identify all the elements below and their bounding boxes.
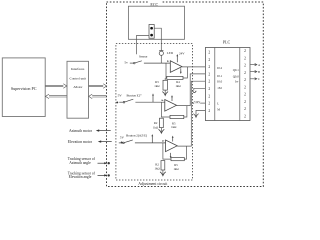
svg-text:1kΩ: 1kΩ: [154, 166, 160, 170]
svg-text:Bouton E2°: Bouton E2°: [127, 93, 143, 97]
Azimuth motor arrow: [98, 130, 111, 132]
svg-text:1kΩ: 1kΩ: [173, 167, 179, 171]
U3 output wire to PLC I0.0: [177, 81, 205, 146]
svg-text:M: M: [217, 107, 220, 111]
5V pull-up arrow row3: [151, 135, 153, 143]
resistor R3: [164, 78, 166, 80]
svg-text:5V: 5V: [120, 136, 125, 140]
svg-text:I0.0: I0.0: [217, 79, 222, 83]
svg-text:2: 2: [208, 94, 210, 98]
svg-text:5V: 5V: [118, 94, 123, 98]
+24V wire to L: [193, 102, 206, 104]
op-amp U3: [166, 140, 178, 152]
svg-text:2: 2: [244, 85, 246, 89]
signal arrow row2: [162, 100, 164, 102]
Supervision PC box: [2, 58, 45, 117]
U1 +24V supply arrow: [176, 55, 178, 62]
svg-text:I0.1: I0.1: [217, 74, 222, 78]
svg-text:2: 2: [244, 71, 246, 75]
resistor R5b: [171, 158, 184, 161]
R3 ground: [164, 90, 166, 95]
svg-text:-Motor: -Motor: [73, 85, 83, 89]
svg-text:2: 2: [208, 102, 210, 106]
op-amp U2: [165, 100, 177, 112]
U1 output wire to PLC I0.2: [182, 66, 205, 68]
resistor R2b: [161, 161, 165, 170]
resistor R2: [160, 118, 164, 127]
PLC left terminals: [208, 51, 210, 113]
signal arrow row3: [162, 140, 164, 142]
U2 feedback wire: [161, 102, 187, 117]
svg-text:2: 2: [244, 49, 246, 53]
svg-text:2: 2: [244, 115, 246, 119]
wire connector pin2 to sensor switch: [137, 35, 149, 54]
Adjustment circuit dashed box: [116, 44, 192, 181]
svg-text:2: 2: [244, 100, 246, 104]
resistor R4: [167, 76, 183, 79]
svg-text:Supervision PC: Supervision PC: [11, 86, 37, 91]
Interfaces Control-unit Motor box: [67, 61, 89, 118]
svg-text:2: 2: [208, 65, 210, 69]
hollow arrow Interfaces to PC (left): [46, 94, 67, 99]
svg-text:Interfaces: Interfaces: [71, 67, 85, 71]
M ground arrow: [193, 113, 198, 117]
Elevation motor arrow: [100, 141, 112, 143]
svg-text:2: 2: [208, 51, 210, 55]
sensor switch S1: [130, 61, 171, 64]
ECC label: [148, 1, 161, 7]
ECC box: [128, 6, 184, 39]
1M ground hook: [193, 91, 197, 93]
signal arrow row1: [167, 60, 169, 62]
PLC right terminals: [244, 49, 246, 119]
button switch S2: [119, 99, 165, 103]
svg-text:Azimuth motor: Azimuth motor: [69, 129, 93, 133]
outer dashed enclosure (antenna unit): [107, 2, 264, 187]
U1 negative supply down arrow: [180, 68, 182, 73]
svg-text:Sensor: Sensor: [139, 54, 149, 58]
U3 feedback wire: [163, 143, 187, 159]
svg-text:L: L: [217, 102, 219, 106]
svg-text:Elevation angle: Elevation angle: [69, 175, 92, 179]
U1 feedback wire: [166, 63, 187, 78]
resistor R5: [170, 115, 184, 118]
svg-text:Elevation motor: Elevation motor: [68, 140, 93, 144]
PLC inner left divider: [214, 48, 216, 121]
LED D1: [159, 50, 163, 52]
+24V label: [194, 100, 201, 104]
U3 supply arrow: [172, 137, 174, 142]
U3 negative supply down arrow: [170, 153, 172, 157]
hollow arrow PC to Interfaces (right): [45, 84, 66, 89]
svg-text:2: 2: [208, 87, 210, 91]
1M ground wire: [194, 88, 206, 90]
Tracking azimuth arrow with dot: [98, 162, 108, 164]
U2 supply arrow: [171, 96, 173, 101]
U2 output wire to PLC I0.1: [177, 74, 206, 106]
svg-text:PLC: PLC: [223, 40, 231, 45]
svg-text:2: 2: [208, 72, 210, 76]
svg-text:Q0.1: Q0.1: [233, 68, 240, 72]
svg-text:+24V: +24V: [194, 100, 202, 104]
svg-text:Adjustment circuit: Adjustment circuit: [138, 182, 168, 186]
svg-text:2: 2: [244, 93, 246, 97]
svg-text:Q0.0: Q0.0: [233, 75, 240, 79]
svg-text:2: 2: [208, 80, 210, 84]
svg-text:C: C: [258, 77, 260, 81]
svg-text:Azimuth angle: Azimuth angle: [69, 161, 91, 165]
svg-text:2: 2: [244, 56, 246, 60]
svg-text:LED: LED: [167, 51, 174, 55]
op-amp U1: [170, 61, 182, 73]
hollow arrow Interfaces to dashed box (right): [89, 84, 107, 89]
PLC output arrow A: [250, 63, 257, 65]
connector J1 inside ECC: [149, 25, 154, 39]
svg-text:24V: 24V: [179, 52, 185, 56]
svg-text:2: 2: [244, 64, 246, 68]
svg-text:1kΩ: 1kΩ: [171, 125, 177, 129]
wire connector pin1 to LED: [154, 28, 161, 50]
node dot row3: [121, 142, 123, 144]
svg-text:1kΩ: 1kΩ: [153, 125, 159, 129]
PLC outer box: [205, 48, 250, 121]
svg-text:Control unit: Control unit: [69, 76, 86, 80]
svg-text:2: 2: [208, 58, 210, 62]
button switch S3: [119, 140, 166, 144]
svg-text:Bouton 2(AZ/E): Bouton 2(AZ/E): [126, 133, 147, 137]
svg-text:1kΩ: 1kΩ: [154, 84, 160, 88]
svg-text:B: B: [258, 70, 260, 74]
PLC output arrow C: [250, 78, 257, 80]
hollow arrow dashed box to Interfaces (left): [89, 94, 107, 99]
svg-text:2: 2: [244, 107, 246, 111]
svg-text:5v: 5v: [124, 60, 128, 64]
svg-text:2: 2: [244, 78, 246, 82]
M ground wire: [196, 110, 205, 113]
node dot row2: [116, 101, 118, 103]
svg-text:R2: R2: [154, 121, 158, 125]
svg-text:I0.2: I0.2: [217, 66, 222, 70]
svg-text:1kΩ: 1kΩ: [175, 84, 181, 88]
PLC output arrow B: [250, 70, 257, 72]
PLC inner right divider: [239, 48, 241, 121]
R2b ground: [162, 170, 164, 175]
R2 ground: [160, 128, 162, 133]
svg-text:1M: 1M: [217, 86, 222, 90]
5V pull-up arrow row2: [152, 95, 154, 103]
svg-text:2: 2: [208, 109, 210, 113]
Tracking elevation arrow with dot: [98, 174, 108, 176]
